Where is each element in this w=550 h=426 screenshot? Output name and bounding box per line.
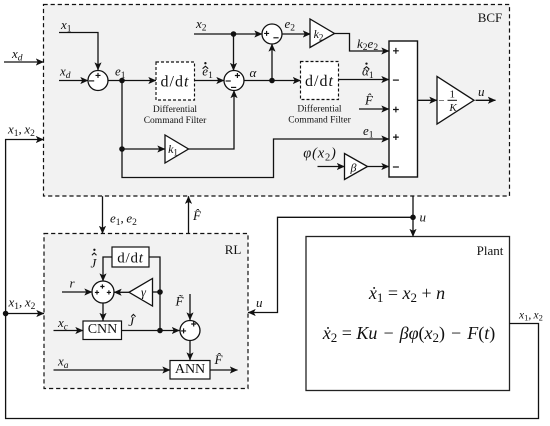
svg-text:ẋ2 = Ku − βφ(x2) − F(t): ẋ2 = Ku − βφ(x2) − F(t) [322, 323, 495, 345]
svg-text:1: 1 [449, 89, 455, 101]
svg-text:Differential: Differential [153, 104, 197, 115]
svg-text:α: α [250, 65, 258, 80]
svg-text:Plant: Plant [477, 243, 504, 258]
svg-text:x1, x2: x1, x2 [518, 310, 543, 323]
svg-text:d/dt: d/dt [117, 251, 144, 267]
svg-text:F̂: F̂ [192, 208, 202, 223]
svg-text:β: β [350, 161, 357, 175]
svg-text:d/dt: d/dt [305, 73, 334, 90]
svg-text:e1, e2: e1, e2 [110, 211, 137, 229]
svg-text:u: u [478, 84, 485, 99]
svg-text:Differential: Differential [297, 104, 341, 115]
svg-text:u: u [420, 210, 427, 225]
svg-text:d/dt: d/dt [161, 74, 190, 91]
svg-text:u: u [256, 295, 263, 310]
svg-text:F̃: F̃ [175, 294, 185, 309]
svg-text:x1, x2: x1, x2 [8, 295, 36, 313]
svg-text:Command Filter: Command Filter [288, 116, 351, 126]
svg-text:ANN: ANN [175, 362, 205, 377]
svg-text:Command Filter: Command Filter [144, 116, 207, 126]
svg-text:−: − [438, 95, 444, 107]
svg-text:F̂: F̂ [214, 352, 224, 367]
svg-text:xd: xd [11, 46, 23, 64]
svg-text:F̂: F̂ [364, 93, 374, 108]
svg-text:x1, x2: x1, x2 [7, 122, 35, 140]
svg-text:K: K [448, 102, 457, 114]
svg-text:φ(x2): φ(x2) [303, 146, 336, 164]
svg-text:CNN: CNN [88, 322, 118, 337]
svg-text:RL: RL [225, 242, 242, 257]
svg-text:BCF: BCF [478, 10, 503, 25]
